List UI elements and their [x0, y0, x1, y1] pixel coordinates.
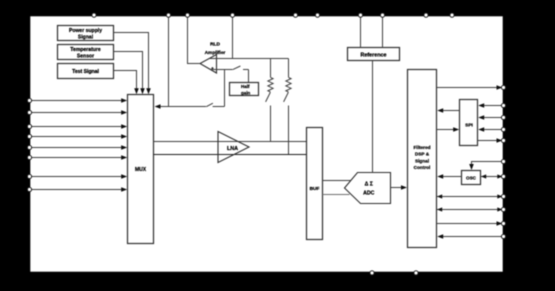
- svg-text:LNA: LNA: [227, 146, 238, 152]
- wire: analog input 7 to MUX: [30, 174, 127, 179]
- resistor R2: [286, 77, 291, 92]
- wire: analog input 8 to MUX: [30, 187, 127, 192]
- switch: RLD feedback switch: [206, 103, 224, 107]
- wire: RLDREF pin down to MUX feedback: [168, 15, 170, 107]
- pins: left edge input terminals: [27, 98, 31, 191]
- wire: RLD amp inverting input node to feedback resistors: [209, 58, 289, 60]
- wire: CLK pin to OSC: [469, 162, 503, 171]
- wire: feedback into MUX right side: [155, 104, 207, 109]
- svg-text:Temperature: Temperature: [70, 47, 101, 53]
- wire: DSP to SPI: [437, 127, 460, 132]
- wire: resistor R1 top lead: [270, 59, 272, 78]
- wire: VREFN pin to Reference: [382, 15, 384, 48]
- wire: resistor R2 top lead: [288, 59, 290, 78]
- wire: Power supply Signal to MUX: [114, 33, 151, 95]
- switch: below R2: [284, 92, 289, 102]
- svg-text:Signal: Signal: [415, 158, 429, 163]
- svg-text:Half: Half: [241, 84, 250, 89]
- block: OSC oscillator: [462, 171, 481, 185]
- svg-text:gain: gain: [241, 91, 251, 96]
- svg-text:Control: Control: [414, 165, 431, 170]
- wire: RLDOUT pin down to RLD amp output: [188, 15, 201, 64]
- amplifier LNA: [218, 132, 249, 163]
- svg-text:Amplifier: Amplifier: [205, 50, 226, 56]
- wire: analog input 4 to MUX: [30, 134, 127, 139]
- wire: CS pin to SPI: [478, 115, 503, 120]
- wire: ADC output to DSP: [391, 185, 408, 190]
- wire: SPI DOUT to pin: [478, 138, 503, 143]
- svg-text:DSP &: DSP &: [415, 152, 430, 157]
- wire: DSP GPIO1 bidirectional: [437, 194, 503, 198]
- svg-text:SPI: SPI: [465, 123, 473, 129]
- wire: analog input 2 to MUX: [30, 110, 127, 115]
- wire: Test Signal to MUX: [114, 71, 139, 95]
- pins: bottom edge terminals: [370, 271, 418, 275]
- svg-text:Power supply: Power supply: [69, 28, 102, 34]
- block: Power supply Signal source: [58, 26, 114, 41]
- svg-text:Filtered: Filtered: [414, 145, 431, 150]
- wire: analog input 1 to MUX: [30, 98, 127, 103]
- svg-text:BUF: BUF: [310, 186, 320, 192]
- wire: DSP GPIO2 bidirectional: [437, 207, 503, 211]
- svg-text:+: +: [211, 66, 214, 71]
- resistor R1: [268, 77, 273, 92]
- wire: RLDIN pin to RLD amp inverting input: [232, 15, 234, 59]
- device boundary (chip outline): [30, 16, 504, 273]
- wire: switch to Half gain block: [248, 70, 250, 83]
- wire: DIN pin to SPI: [478, 127, 503, 132]
- block: Reference: [348, 48, 400, 61]
- wire: Reference to ADC: [372, 61, 374, 173]
- switch: RLD gain select switch: [233, 66, 249, 70]
- block: Filtered DSP and Signal Control: [408, 70, 437, 248]
- wire: SPI to DSP: [437, 108, 459, 113]
- multiplexer MUX: [128, 95, 154, 244]
- svg-text:Test Signal: Test Signal: [72, 69, 99, 75]
- pins: right edge terminals: [501, 85, 505, 238]
- block: Half gain: [230, 83, 259, 96]
- svg-text:Δ Σ: Δ Σ: [365, 181, 373, 187]
- block: Temperature Sensor source: [58, 45, 114, 60]
- svg-text:Sensor: Sensor: [77, 54, 94, 60]
- wire: MUX negative output to BUF: [154, 154, 307, 156]
- ADC block Delta-Sigma ADC: [345, 173, 391, 204]
- svg-text:OSC: OSC: [466, 176, 477, 181]
- svg-text:RLD: RLD: [210, 42, 220, 48]
- svg-text:Signal: Signal: [78, 35, 94, 41]
- wire: BUF output negative to ADC: [323, 194, 350, 196]
- wire: Temperature Sensor to MUX: [114, 52, 145, 95]
- svg-text:MUX: MUX: [135, 167, 147, 173]
- wire: DSP data ready output pin: [437, 85, 503, 90]
- svg-text:ADC: ADC: [363, 191, 374, 197]
- wire: DSP status output pin: [437, 221, 503, 226]
- wire: RESET pin to DSP: [437, 234, 503, 239]
- wire: VREFP pin to Reference: [360, 15, 362, 48]
- wire: MUX positive output to BUF: [154, 141, 307, 143]
- wire: analog input 3 to MUX: [30, 124, 127, 129]
- pins: top edge terminals: [92, 13, 454, 17]
- buffer BUF: [307, 128, 323, 240]
- switch: below R1: [266, 92, 271, 102]
- wire: analog input 5 to MUX: [30, 145, 127, 150]
- wire: OSC to DSP: [437, 174, 461, 179]
- block: SPI interface: [460, 100, 478, 146]
- wire: analog input 6 to MUX: [30, 155, 127, 160]
- svg-text:Reference: Reference: [360, 52, 386, 58]
- wire: junction RLD non-inverting input node: [210, 70, 232, 107]
- wire: R2 to negative signal line: [288, 106, 290, 155]
- wire: OSC to CLKOUT pin bidirectional: [481, 174, 503, 178]
- wire: SCLK pin to SPI: [478, 103, 503, 108]
- wire: R1 to positive signal line: [270, 106, 272, 142]
- wire: BUF output positive to ADC: [323, 180, 355, 182]
- op-amp RLD Amplifier: [200, 42, 226, 73]
- block: Test Signal source: [58, 64, 114, 79]
